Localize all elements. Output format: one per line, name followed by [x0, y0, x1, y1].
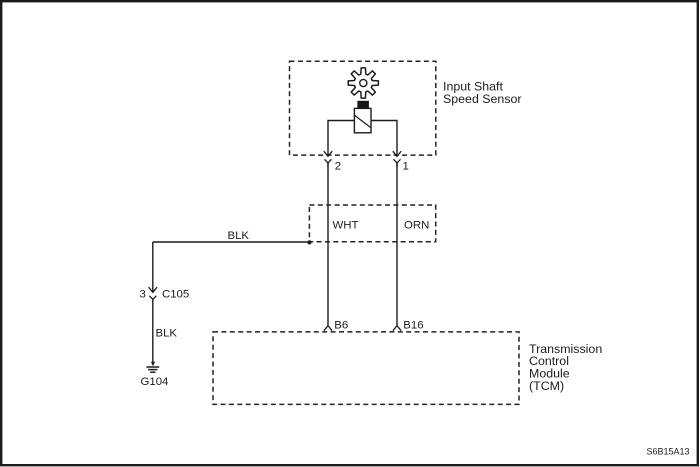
svg-text:(TCM): (TCM) — [529, 379, 564, 393]
svg-text:Speed Sensor: Speed Sensor — [443, 92, 522, 106]
wire: pin 1 down to TCM B16 (ORN) — [396, 163, 398, 326]
svg-text:B16: B16 — [403, 320, 423, 332]
TCM pin B6 fork — [324, 326, 332, 331]
gear icon of speed sensor — [348, 68, 378, 98]
svg-text:B6: B6 — [334, 320, 348, 332]
svg-text:C105: C105 — [162, 288, 189, 300]
svg-text:ORN: ORN — [404, 220, 429, 232]
svg-text:WHT: WHT — [333, 220, 359, 232]
connector terminal pin 2 (arrow + fork) — [324, 151, 332, 166]
junction dot — [307, 240, 311, 244]
wire: down to connector C105 — [152, 242, 154, 292]
svg-text:2: 2 — [335, 161, 341, 173]
harness box WHT/ORN (dashed) — [309, 205, 435, 242]
svg-text:S6B15A13: S6B15A13 — [646, 446, 689, 456]
wire: pin 2 down to TCM B6 (WHT) — [327, 163, 329, 326]
svg-text:1: 1 — [403, 161, 409, 173]
svg-text:BLK: BLK — [228, 230, 250, 242]
connector terminal pin 1 (arrow + fork) — [393, 151, 401, 166]
svg-text:3: 3 — [140, 288, 146, 300]
wire: BLK horizontal run — [153, 241, 310, 243]
sensor cap (solid) — [357, 101, 369, 109]
wire: BLK to ground — [152, 299, 154, 363]
connector C105 terminal (arrow + fork) — [149, 287, 157, 303]
connector box: Input Shaft Speed Sensor (dashed) — [290, 61, 436, 155]
sensor body with diagonal (speed sensor element) — [354, 108, 371, 132]
wire: sensor right lead to pin 1 — [371, 121, 397, 156]
svg-text:G104: G104 — [141, 376, 169, 388]
ground G104 — [146, 362, 159, 372]
wire: sensor left lead to pin 2 — [328, 121, 354, 156]
svg-text:BLK: BLK — [156, 327, 178, 339]
TCM box (dashed) — [213, 332, 519, 405]
TCM pin B16 fork — [393, 326, 401, 331]
